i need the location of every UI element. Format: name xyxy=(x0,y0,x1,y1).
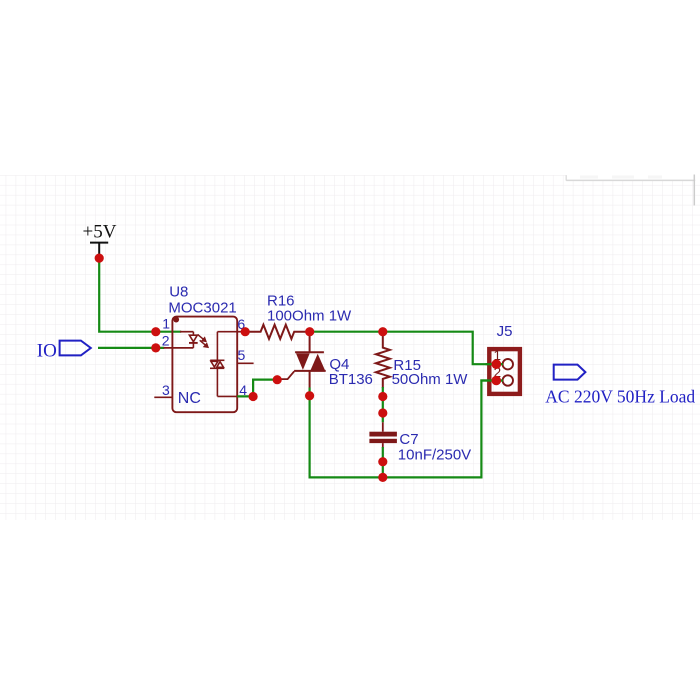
junction Q4 bottom xyxy=(305,391,314,400)
wire overlay into J5 pin 1 xyxy=(486,363,503,365)
svg-text:IO: IO xyxy=(37,340,57,361)
svg-text:MOC3021: MOC3021 xyxy=(168,299,236,316)
schematic canvas grid xyxy=(0,175,700,520)
junction rail xyxy=(378,473,387,482)
U8 body xyxy=(172,317,237,413)
op-coupler U8 xyxy=(154,283,253,412)
wire U8 pin4 to Q4 gate xyxy=(237,380,277,397)
net flag AC load xyxy=(545,365,695,407)
junction C7 bottom xyxy=(378,457,387,466)
net flag IO xyxy=(37,340,91,361)
wire +5V overlap into U8 xyxy=(156,331,181,333)
svg-text:J5: J5 xyxy=(497,323,513,340)
svg-text:2: 2 xyxy=(162,333,170,349)
junction +5V xyxy=(95,254,104,263)
svg-text:50Ohm 1W: 50Ohm 1W xyxy=(392,371,469,388)
junction J5 pin1 xyxy=(492,359,502,369)
svg-text:3: 3 xyxy=(162,382,170,398)
U8 pin 5 xyxy=(237,362,253,364)
U8 internal LED xyxy=(189,332,198,348)
wire Q4 bottom to rail xyxy=(310,388,383,478)
junction U8 pin6 xyxy=(241,327,250,336)
capacitor C7 xyxy=(369,422,471,463)
svg-text:1: 1 xyxy=(162,316,170,332)
wire C7 bottom xyxy=(382,447,384,477)
wire rail to J5 pin2 xyxy=(383,381,503,478)
svg-text:BT136: BT136 xyxy=(329,371,373,388)
U8 pin 2 xyxy=(164,347,194,349)
junction U8 pin4 xyxy=(249,392,258,401)
svg-text:C7: C7 xyxy=(399,431,418,448)
svg-text:AC 220V 50Hz Load: AC 220V 50Hz Load xyxy=(545,386,695,406)
U8 pin 1 xyxy=(180,331,193,333)
ui panel bottom edge (top right) xyxy=(566,160,700,206)
junction R16 right xyxy=(305,327,314,336)
triac Q4 xyxy=(277,332,373,389)
wire R15 node to J5 pin1 xyxy=(383,332,503,365)
wire +5V vertical to pin1 row xyxy=(99,258,156,332)
junction C7 top xyxy=(378,408,387,417)
junction Q4 gate xyxy=(273,375,282,384)
connector J5 xyxy=(489,323,520,394)
junction U8 pin1 xyxy=(151,327,160,336)
junction U8 pin2 xyxy=(151,343,160,352)
svg-text:+5V: +5V xyxy=(83,222,117,243)
wire IO to pin2 xyxy=(98,347,164,349)
junction R15 bottom xyxy=(378,392,387,401)
U8 pin 4 xyxy=(237,395,249,397)
svg-text:U8: U8 xyxy=(169,283,188,300)
wire R15 bottom xyxy=(382,387,384,422)
svg-text:NC: NC xyxy=(178,390,201,407)
U8 pin 6 xyxy=(237,331,245,333)
wire R16 to R15 node xyxy=(310,331,383,333)
resistor R16 xyxy=(245,293,352,339)
U8 internal photo-triac xyxy=(210,332,237,397)
wire overlay into J5 pin 2 xyxy=(480,379,503,381)
svg-text:10nF/250V: 10nF/250V xyxy=(398,447,471,464)
junction R15 top xyxy=(378,327,387,336)
U8 pin 3 xyxy=(154,396,172,398)
power +5V xyxy=(83,222,117,256)
junction J5 pin2 xyxy=(492,376,502,386)
resistor R15 xyxy=(376,334,468,388)
U8 LED emission arrows xyxy=(198,334,208,347)
Q4 gate lead xyxy=(277,371,294,379)
svg-text:100Ohm 1W: 100Ohm 1W xyxy=(267,308,352,325)
svg-text:5: 5 xyxy=(238,347,246,363)
